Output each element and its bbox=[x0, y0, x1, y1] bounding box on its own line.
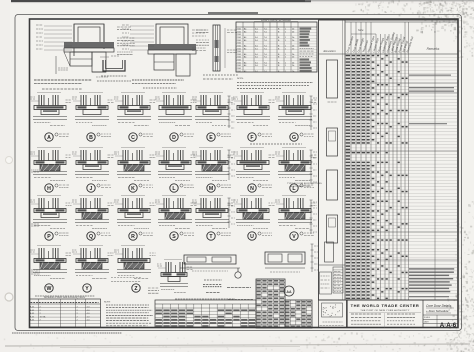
elevation sketch 5 bbox=[325, 242, 334, 262]
svg-text:D: D bbox=[172, 135, 176, 141]
detail drawing at 77,248 bbox=[79, 245, 103, 247]
vertical mullion strip detail bbox=[213, 25, 220, 71]
detail drawing at 119,95 bbox=[121, 92, 145, 94]
detail drawing at 77,198 bbox=[79, 195, 103, 197]
scan noise top-right bbox=[430, 0, 431, 1]
circled letter D bbox=[170, 133, 178, 141]
circled letter W bbox=[45, 284, 53, 292]
detail drawing at 35,95 bbox=[37, 92, 61, 94]
notes right of big detail 2 bbox=[196, 29, 209, 31]
detail drawing at 280,198 bbox=[282, 195, 306, 197]
svg-text:F: F bbox=[250, 135, 253, 141]
svg-text:M: M bbox=[209, 186, 213, 192]
circled letter L bbox=[290, 184, 298, 192]
svg-text:R: R bbox=[131, 234, 135, 240]
svg-text:P: P bbox=[47, 234, 51, 240]
detail drawing at 35,248 bbox=[37, 245, 61, 247]
svg-text:Remarks: Remarks bbox=[427, 47, 440, 51]
big jamb detail 1 bbox=[74, 24, 104, 46]
scan noise right edge bbox=[463, 287, 464, 289]
svg-text:+ Door Schedule: + Door Schedule bbox=[426, 309, 449, 313]
circled letter V bbox=[290, 232, 298, 240]
main door schedule table bbox=[319, 20, 459, 300]
detail drawing at 77,150 bbox=[79, 147, 103, 149]
detail drawing at 160,150 bbox=[162, 147, 186, 149]
elevation sketch 1 bbox=[327, 60, 338, 98]
svg-text:J: J bbox=[90, 186, 93, 192]
svg-text:B: B bbox=[89, 135, 93, 141]
channel detail bbox=[103, 60, 125, 71]
detail drawing at 119,150 bbox=[121, 147, 145, 149]
svg-text:THE WORLD TRADE CENTER: THE WORLD TRADE CENTER bbox=[351, 303, 420, 308]
circled letter M bbox=[207, 184, 215, 192]
dashed dimension lines above Z bbox=[111, 277, 141, 279]
circled letter P bbox=[45, 232, 53, 240]
circled letter F bbox=[248, 133, 256, 141]
svg-text:U: U bbox=[250, 234, 254, 240]
svg-text:THE PORT OF NEW YORK AUTHORITY: THE PORT OF NEW YORK AUTHORITY bbox=[360, 309, 409, 312]
detail drawing at 280,150 bbox=[282, 147, 306, 149]
svg-text:AA: AA bbox=[286, 290, 292, 294]
elevation sketch 4 bbox=[327, 215, 338, 243]
detail drawing at 35,198 bbox=[37, 195, 61, 197]
circled letter U bbox=[248, 232, 256, 240]
big jamb detail 2 bbox=[156, 24, 188, 48]
detail drawing at 35,150 bbox=[37, 147, 61, 149]
elevation column bbox=[344, 20, 346, 300]
elevation sketch 3 bbox=[327, 170, 338, 200]
louvre plan detail bbox=[184, 255, 236, 264]
svg-text:H: H bbox=[47, 186, 51, 192]
notes right of big detail 1 bbox=[117, 26, 131, 28]
scan noise bottom bbox=[390, 342, 392, 344]
circled letter R bbox=[129, 232, 137, 240]
small boxes above title block bbox=[319, 300, 347, 328]
svg-text:A: A bbox=[47, 135, 51, 141]
circled letter AA bbox=[284, 286, 294, 296]
svg-text:N: N bbox=[250, 186, 254, 192]
circled letter G bbox=[290, 133, 298, 141]
detail drawing at 119,248 bbox=[121, 245, 145, 247]
svg-text:SCALE: SCALE bbox=[424, 316, 431, 319]
svg-text:A·A-6: A·A-6 bbox=[440, 322, 457, 329]
dimension ladder strips bbox=[228, 96, 230, 128]
circled letter E bbox=[207, 133, 215, 141]
svg-text:DATE: DATE bbox=[424, 321, 429, 324]
circled letter C bbox=[129, 133, 137, 141]
svg-text:16 GA: 16 GA bbox=[40, 316, 47, 319]
svg-text:Core Door Details: Core Door Details bbox=[426, 304, 452, 308]
louvre schedule table bbox=[175, 298, 235, 300]
svg-text:Q: Q bbox=[89, 234, 93, 240]
caption above detail row 1 bbox=[143, 87, 177, 89]
circled letter Q bbox=[87, 232, 95, 240]
svg-text:Door Louvre Schedule: Door Louvre Schedule bbox=[261, 18, 291, 22]
detail drawing at 197,150 bbox=[199, 147, 223, 149]
svg-text:K: K bbox=[131, 186, 135, 192]
circled letter Y bbox=[83, 284, 91, 292]
svg-text:V: V bbox=[292, 234, 296, 240]
dense hatched table left part bbox=[256, 279, 285, 328]
circled letter A bbox=[45, 133, 53, 141]
svg-text:C: C bbox=[131, 135, 135, 141]
circled letter B bbox=[87, 133, 95, 141]
svg-text:AT STL PARTITIONS: AT STL PARTITIONS bbox=[290, 185, 311, 188]
detail drawing at 238,95 bbox=[240, 92, 264, 94]
svg-text:NOTE:: NOTE: bbox=[237, 78, 244, 80]
title block bbox=[347, 300, 458, 328]
detail drawing at 119,198 bbox=[121, 195, 145, 197]
svg-text:S: S bbox=[172, 234, 176, 240]
detail drawing at 160,198 bbox=[162, 195, 186, 197]
svg-text:Size: Size bbox=[358, 28, 364, 32]
circled letter K bbox=[129, 184, 137, 192]
circled letter H bbox=[45, 184, 53, 192]
svg-text:TYPICAL DOOR BUCK SECTIONS: TYPICAL DOOR BUCK SECTIONS bbox=[287, 182, 322, 185]
circled letter L bbox=[170, 184, 178, 192]
circled letter N bbox=[248, 184, 256, 192]
section bubble detail bbox=[235, 272, 241, 278]
notes bottom-center bbox=[204, 279, 222, 281]
detail drawing at 77,95 bbox=[79, 92, 103, 94]
detail drawing at 238,198 bbox=[240, 195, 264, 197]
detail drawing at 162,262 bbox=[164, 259, 182, 261]
elevation sketch 2 bbox=[327, 128, 338, 156]
svg-text:NOTE:: NOTE: bbox=[104, 302, 111, 304]
detail drawing at 280,95 bbox=[282, 92, 306, 94]
detail drawing at 160,95 bbox=[162, 92, 186, 94]
detail drawing at 197,95 bbox=[199, 92, 223, 94]
circled letter S bbox=[170, 232, 178, 240]
svg-text:W: W bbox=[47, 286, 52, 292]
svg-text:E: E bbox=[209, 135, 213, 141]
svg-text:Elevation: Elevation bbox=[324, 49, 337, 53]
border inner bbox=[30, 19, 459, 328]
dense hatched table right part bbox=[285, 300, 312, 328]
circled letter Z bbox=[132, 284, 140, 292]
svg-text:Y: Y bbox=[85, 286, 89, 292]
detail drawing at 197,198 bbox=[199, 195, 223, 197]
circled letter J bbox=[87, 184, 95, 192]
detail drawing at 238,150 bbox=[240, 147, 264, 149]
svg-text:G: G bbox=[292, 135, 296, 141]
louvre section detail bbox=[265, 252, 305, 264]
circled letter T bbox=[207, 232, 215, 240]
